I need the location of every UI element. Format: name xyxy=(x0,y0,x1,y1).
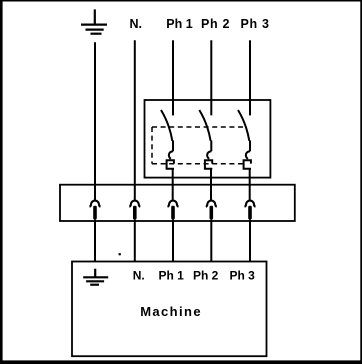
svg-text:Ph 3: Ph 3 xyxy=(241,17,270,31)
svg-text:Ph 1: Ph 1 xyxy=(166,17,192,31)
svg-text:Ph 1: Ph 1 xyxy=(159,269,185,283)
svg-text:N.: N. xyxy=(130,17,143,31)
svg-text:N.: N. xyxy=(133,269,145,283)
svg-text:Ph 2: Ph 2 xyxy=(201,17,230,31)
svg-text:Ph 2: Ph 2 xyxy=(193,269,219,283)
svg-text:Machine: Machine xyxy=(140,304,202,319)
svg-text:Ph 3: Ph 3 xyxy=(230,269,256,283)
